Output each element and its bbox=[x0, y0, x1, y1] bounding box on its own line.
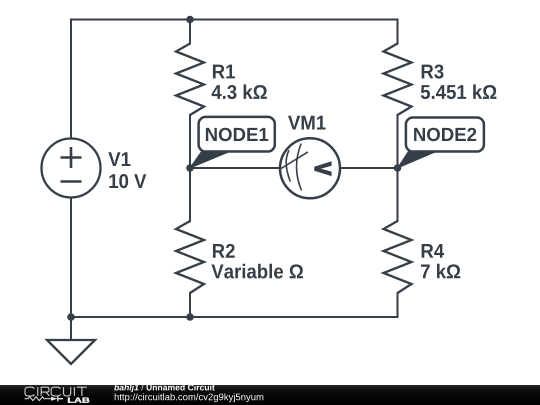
ground bbox=[47, 340, 95, 364]
wire left rail lower bbox=[70, 198, 72, 318]
value Variable Ohm bbox=[211, 264, 303, 279]
wire middle branch between R1 and NODE1 bbox=[189, 115, 191, 168]
resistor R1 bbox=[176, 44, 204, 116]
footer author line bbox=[114, 384, 215, 392]
logo CIRCUIT outlined bbox=[25, 387, 87, 396]
logo resistor squiggle bbox=[25, 397, 51, 401]
resistor R2 bbox=[176, 221, 204, 293]
node NODE1 callout bbox=[190, 117, 275, 168]
logo diode arrow bbox=[51, 397, 58, 401]
wire middle branch between NODE1 and R2 bbox=[189, 168, 191, 221]
value 5.451 kOhm bbox=[421, 84, 497, 99]
wire right branch between R3 and NODE2 bbox=[397, 115, 399, 168]
node bottom middle junction bbox=[186, 313, 194, 321]
wire top rail bbox=[71, 19, 398, 21]
label R2 bbox=[213, 244, 235, 258]
wire middle branch upper lead bbox=[189, 20, 191, 44]
wire bottom rail bbox=[71, 316, 398, 318]
label R1 bbox=[213, 65, 235, 79]
label V1 bbox=[108, 152, 130, 166]
node junction top rail bbox=[186, 16, 194, 24]
resistor R4 bbox=[384, 221, 412, 293]
voltage source V1 bbox=[42, 139, 101, 198]
label R4 bbox=[422, 244, 444, 258]
wire NODE1 to voltmeter bbox=[190, 167, 280, 169]
label VM1 bbox=[288, 116, 326, 130]
wire right branch lower lead bbox=[397, 293, 399, 317]
node NODE2 junction bbox=[394, 164, 402, 172]
logo LAB bbox=[68, 398, 89, 403]
wire middle branch lower lead bbox=[189, 293, 191, 317]
node NODE2 callout bbox=[398, 118, 484, 169]
voltmeter VM1 bbox=[280, 138, 341, 198]
footer url line bbox=[115, 393, 264, 402]
value 7 kOhm bbox=[421, 264, 460, 278]
resistor R3 bbox=[384, 44, 412, 116]
node NODE1 junction bbox=[186, 164, 194, 172]
wire voltmeter to NODE2 bbox=[340, 167, 398, 169]
node ground junction bbox=[67, 313, 75, 321]
label R3 bbox=[422, 64, 444, 78]
wire ground stem bbox=[70, 317, 72, 340]
wire right branch between NODE2 and R4 bbox=[397, 168, 399, 221]
wire left rail upper bbox=[70, 20, 72, 139]
value 10 V bbox=[109, 174, 146, 188]
value 4.3 kOhm bbox=[212, 84, 267, 99]
wire right branch upper lead bbox=[397, 20, 399, 44]
